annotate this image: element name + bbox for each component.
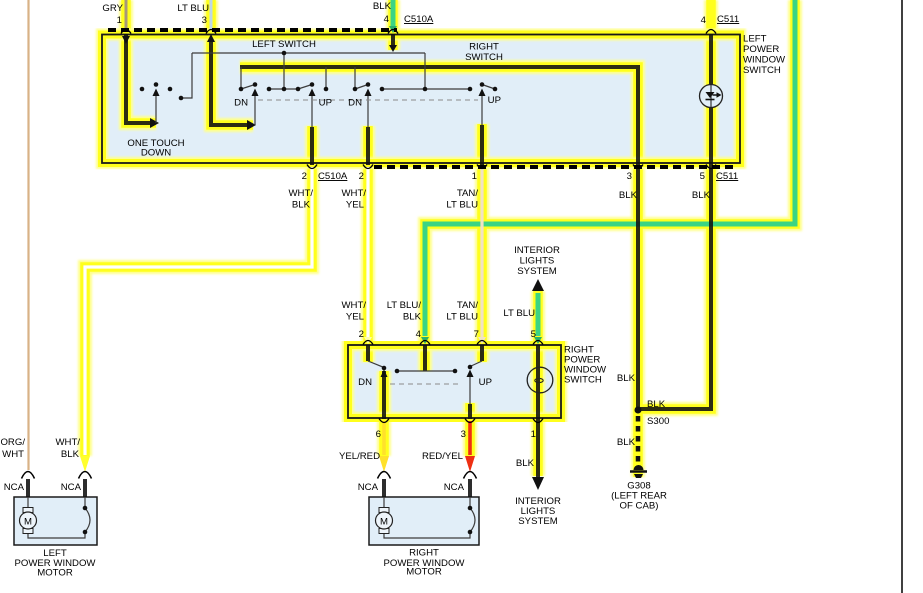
arrow interior lights up	[532, 279, 544, 291]
gang dashed link lower switch	[390, 383, 462, 385]
svg-text:2: 2	[359, 171, 364, 182]
rail drop to one-touch	[181, 53, 192, 98]
svg-text:2: 2	[302, 171, 307, 182]
svg-text:LT BLU: LT BLU	[446, 200, 478, 211]
svg-text:TAN/: TAN/	[457, 300, 478, 311]
stub pin4 lower box	[423, 345, 427, 371]
wire WHT/BLK core	[85, 167, 312, 455]
bus drop to L-UP contact	[325, 67, 327, 89]
L-UP blade	[298, 85, 312, 90]
svg-text:OF CAB): OF CAB)	[620, 501, 659, 512]
wire R-UP wiper to pin1	[480, 125, 484, 165]
left power window switch box fill	[102, 35, 740, 164]
svg-text:BLK: BLK	[516, 458, 535, 469]
svg-text:RED/YEL: RED/YEL	[422, 451, 464, 462]
L-UP wiper arrow	[309, 89, 316, 97]
R-UP wiper line	[481, 94, 483, 125]
wire BLK pin5 to S300	[640, 163, 711, 409]
svg-text:C510A: C510A	[404, 14, 434, 25]
svg-text:POWER: POWER	[743, 44, 779, 55]
svg-text:M: M	[24, 517, 32, 528]
svg-text:WHT/: WHT/	[341, 300, 366, 311]
svg-text:NCA: NCA	[358, 482, 379, 493]
text wire labels row2	[341, 300, 535, 323]
svg-text:BLK: BLK	[647, 399, 666, 410]
wire pin1 internal one-touch feed	[126, 34, 150, 123]
svg-text:BLK: BLK	[61, 449, 80, 460]
svg-text:SWITCH: SWITCH	[564, 375, 602, 386]
svg-text:LT BLU: LT BLU	[446, 312, 478, 323]
svg-text:SYSTEM: SYSTEM	[517, 266, 556, 277]
svg-text:BLK: BLK	[373, 1, 392, 12]
bus wire	[240, 67, 638, 163]
stub pin5 lamp top	[536, 345, 540, 419]
wire YEL/RED core	[382, 421, 386, 455]
green wire end arrow pin4 top	[389, 26, 397, 33]
green wire end arrow pin5 lower	[534, 337, 542, 344]
wire R-DN wiper to pin2	[366, 127, 370, 165]
svg-text:4: 4	[701, 15, 707, 26]
svg-text:YEL: YEL	[346, 200, 365, 211]
yellow highlight glow outer	[85, 0, 795, 477]
right motor contact line	[469, 497, 471, 508]
rail drop mid contact	[283, 53, 285, 89]
svg-text:WHT/: WHT/	[55, 437, 80, 448]
contact dots lower box	[382, 366, 387, 371]
yellow highlight core	[85, 0, 795, 477]
svg-text:TAN/: TAN/	[457, 188, 478, 199]
left motor symbol	[20, 508, 37, 534]
wire end arrow WHT/YEL at switch	[364, 337, 372, 344]
left power window switch box border	[102, 35, 740, 164]
svg-text:SYSTEM: SYSTEM	[518, 516, 557, 527]
right motor brush line top	[383, 497, 385, 508]
svg-text:C511: C511	[717, 14, 739, 25]
arrow pin3 entry up	[207, 34, 215, 42]
one-touch wiper line	[155, 94, 157, 123]
svg-text:LT BLU: LT BLU	[177, 3, 209, 14]
left motor brush line top	[27, 497, 29, 508]
wire UP wiper lower to pin3	[468, 404, 472, 419]
splice S300	[635, 407, 642, 414]
wire LT BLU/BLK green core	[425, 0, 795, 336]
thin internal lines	[28, 53, 495, 538]
svg-text:C510A: C510A	[318, 171, 348, 182]
svg-text:ORG/: ORG/	[0, 437, 25, 448]
connector C510A/C511 bottom dashed edge	[374, 165, 737, 169]
svg-text:RIGHT: RIGHT	[409, 548, 439, 559]
wire ORG/WHT	[27, 0, 29, 470]
lamp symbol	[527, 367, 553, 393]
right power window switch box fill	[348, 345, 561, 418]
svg-text:LEFT: LEFT	[743, 34, 767, 45]
svg-text:YEL/RED: YEL/RED	[339, 451, 380, 462]
right motor internal path	[384, 532, 470, 538]
ground rail	[192, 52, 425, 54]
svg-text:S300: S300	[647, 416, 669, 427]
wire WHT/YEL core	[366, 167, 369, 338]
svg-text:DN: DN	[234, 98, 248, 109]
svg-text:5: 5	[700, 171, 705, 182]
left motor contact line	[84, 497, 86, 508]
wire C511 pin4 to diode	[709, 34, 713, 84]
svg-text:DN: DN	[348, 98, 362, 109]
wire RED/YEL core	[468, 421, 472, 455]
left motor contact arc	[85, 508, 90, 532]
svg-text:BLK: BLK	[617, 373, 636, 384]
right power window switch box border	[348, 345, 561, 418]
wire end arrow TAN/LT BLU at switch	[478, 337, 486, 344]
svg-text:INTERIOR: INTERIOR	[514, 245, 560, 256]
bus drop to L-DN contact	[240, 67, 242, 89]
wire LT BLU pin5 green core	[536, 293, 541, 336]
wire L-UP wiper to pin2	[310, 127, 314, 165]
bus drop to R-DN contact	[354, 67, 356, 89]
wire BLK pin3 bottom	[636, 163, 640, 409]
svg-text:2: 2	[359, 329, 364, 340]
text pins below top box	[302, 171, 739, 182]
svg-text:C511: C511	[716, 171, 738, 182]
stub NCA right motor pin B	[468, 479, 472, 497]
svg-text:M: M	[380, 517, 388, 528]
R-UP wiper arrow	[479, 89, 486, 97]
lower DN blade	[368, 361, 384, 368]
connector bumps lower box bottom	[379, 419, 389, 423]
svg-text:7: 7	[474, 329, 479, 340]
right motor contact arc	[470, 508, 475, 532]
wire end arrow RED/YEL	[465, 456, 475, 472]
svg-text:1: 1	[531, 429, 536, 440]
lower UP wiper arrow	[467, 370, 474, 378]
svg-text:RIGHT: RIGHT	[469, 42, 499, 53]
left motor internal path	[28, 532, 85, 538]
arrow DN feed	[247, 120, 256, 130]
wire LT BLU core	[210, 0, 213, 30]
svg-text:UP: UP	[319, 98, 332, 109]
svg-text:DOWN: DOWN	[141, 148, 171, 159]
right power window switch box border highlight	[348, 345, 561, 418]
stub pin2 lower box	[366, 345, 370, 361]
rail drop to R-UP contact	[424, 53, 426, 89]
svg-text:BLK: BLK	[403, 312, 422, 323]
R-DN blade	[355, 85, 368, 90]
NCA connector arcs	[22, 472, 35, 479]
arrow interior lights down	[532, 477, 544, 490]
mid contact link line	[269, 88, 299, 90]
connector bumps lower box top	[363, 341, 373, 345]
svg-text:BLK: BLK	[619, 190, 638, 201]
svg-text:1: 1	[472, 171, 477, 182]
svg-text:1: 1	[117, 15, 122, 26]
svg-text:WHT/: WHT/	[341, 188, 366, 199]
L-DN wiper arrow	[252, 89, 259, 97]
R-UP blade	[482, 85, 495, 90]
wiper arrows	[153, 89, 486, 378]
svg-text:BLK: BLK	[692, 190, 711, 201]
lower UP wiper line	[469, 373, 471, 404]
L-DN blade	[241, 85, 255, 90]
svg-text:LEFT SWITCH: LEFT SWITCH	[252, 39, 316, 50]
svg-text:LT BLU: LT BLU	[503, 308, 535, 319]
left power window motor box	[14, 497, 97, 545]
green circuit cores	[393, 0, 795, 336]
L-DN wiper line	[254, 94, 256, 125]
motor contact dots	[83, 506, 88, 511]
text labels top	[102, 1, 739, 26]
svg-text:MOTOR: MOTOR	[406, 567, 442, 578]
svg-text:UP: UP	[488, 95, 501, 106]
svg-text:SWITCH: SWITCH	[465, 52, 503, 63]
R-DN wiper arrow	[365, 89, 372, 97]
svg-text:3: 3	[461, 429, 466, 440]
svg-text:4: 4	[384, 14, 390, 25]
gang dashed link left switch	[258, 99, 478, 101]
connector bumps bottom edge	[307, 165, 317, 169]
connector bumps top edge	[22, 30, 717, 479]
svg-text:6: 6	[376, 429, 381, 440]
svg-text:LIGHTS: LIGHTS	[520, 256, 555, 267]
R-DN wiper line	[367, 94, 369, 127]
white/color wire cores	[85, 0, 482, 455]
wire GRY core	[125, 0, 128, 30]
svg-text:WHT/: WHT/	[288, 188, 313, 199]
arrow pin1 entry down	[122, 36, 130, 44]
arrow pin4 to rail	[389, 45, 397, 52]
lower UP blade	[470, 361, 482, 367]
svg-text:NCA: NCA	[4, 482, 25, 493]
contact dots top box	[83, 51, 642, 535]
svg-text:LT BLU/: LT BLU/	[387, 300, 422, 311]
text wire labels row1	[288, 188, 710, 211]
wire pin3 internal DN feed	[211, 40, 247, 125]
svg-text:DN: DN	[358, 377, 372, 388]
stub pin7 lower box	[480, 345, 484, 361]
stub NCA right motor pin A	[382, 479, 386, 497]
stub NCA left motor pin A	[26, 479, 30, 497]
svg-text:3: 3	[202, 15, 207, 26]
wire TAN/LT BLU core	[480, 167, 483, 338]
svg-text:5: 5	[531, 329, 536, 340]
svg-text:GRY: GRY	[102, 3, 123, 14]
wire pin4 internal stub	[391, 34, 395, 45]
svg-text:BLK: BLK	[617, 437, 636, 448]
stub NCA left motor pin B	[83, 479, 87, 497]
right motor symbol	[376, 508, 393, 534]
one-touch wiper arrow	[153, 89, 160, 97]
svg-text:BLK: BLK	[292, 200, 311, 211]
left power window switch box border highlight	[102, 35, 740, 164]
svg-text:WINDOW: WINDOW	[743, 55, 786, 66]
lower mid contact line	[397, 370, 455, 372]
svg-text:NCA: NCA	[61, 482, 82, 493]
text pins above lower box	[359, 329, 536, 340]
connector C510A top dashed edge	[108, 28, 397, 32]
wire BLK pin4 top green core	[391, 0, 396, 26]
svg-text:SWITCH: SWITCH	[743, 65, 781, 76]
svg-text:MOTOR: MOTOR	[37, 568, 73, 579]
green wire end arrow pin4 lower	[421, 337, 429, 344]
wire DN wiper lower to pin6	[382, 371, 386, 419]
page border right	[901, 0, 903, 593]
svg-text:4: 4	[416, 329, 422, 340]
diode U1	[700, 85, 723, 108]
svg-text:3: 3	[627, 171, 632, 182]
contact line R-DN to R-UP	[382, 88, 470, 90]
right power window motor box	[369, 497, 479, 545]
svg-text:WHT: WHT	[2, 449, 24, 460]
arrow one-touch feed	[150, 118, 159, 128]
lower DN wiper arrow	[381, 370, 388, 378]
svg-text:YEL: YEL	[346, 312, 365, 323]
wire diode to C511 pin5	[709, 108, 713, 163]
wire BLK S300 to ground dashed	[636, 416, 641, 462]
wire BLK pin1 lower to arrow	[536, 419, 540, 477]
L-UP wiper line	[311, 94, 313, 127]
wire end arrow YEL/RED	[379, 456, 389, 472]
ground G308 symbol	[630, 465, 647, 478]
black thick wires	[28, 34, 711, 497]
svg-text:UP: UP	[479, 377, 492, 388]
wire end arrow WHT/BLK	[80, 456, 90, 472]
svg-text:NCA: NCA	[444, 482, 465, 493]
